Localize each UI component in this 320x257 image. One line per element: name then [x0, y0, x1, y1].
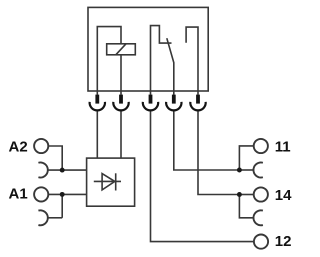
svg-text:12: 12: [275, 233, 292, 250]
svg-text:14: 14: [275, 187, 292, 204]
svg-text:11: 11: [275, 139, 291, 156]
svg-text:A2: A2: [9, 139, 28, 156]
svg-text:A1: A1: [9, 185, 28, 202]
